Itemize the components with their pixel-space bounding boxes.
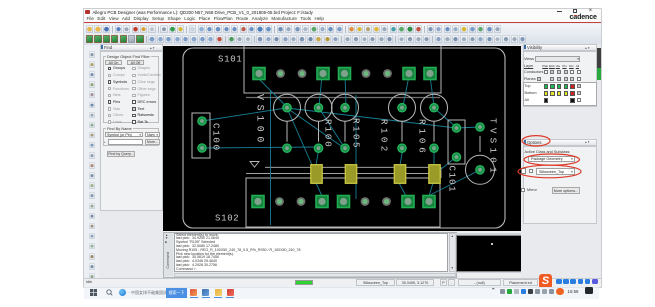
selected pad (yellow) 4 bbox=[429, 165, 440, 184]
svg-text:VS100: VS100 bbox=[254, 94, 265, 147]
svg-text:C100: C100 bbox=[211, 123, 222, 152]
svg-text:C101: C101 bbox=[447, 166, 458, 193]
C100 pin 2 bbox=[198, 144, 206, 152]
S102 second silk line bbox=[246, 173, 441, 175]
R106 pin 1 bbox=[430, 104, 438, 112]
taskbar bbox=[84, 287, 599, 300]
TVS101 pin 1 bbox=[452, 124, 460, 132]
svg-text:R106: R106 bbox=[417, 119, 428, 157]
toolbar row 2 icons bbox=[86, 35, 93, 43]
top layer row bbox=[544, 84, 548, 88]
right scrollbar bbox=[597, 48, 601, 80]
TVS101 pin 2 bbox=[452, 153, 460, 161]
TVS101 silk line bbox=[479, 136, 481, 152]
TVS101 pin 3 bbox=[476, 123, 484, 131]
S102 pin 1 bbox=[252, 196, 264, 208]
R100 pin 1 bbox=[314, 104, 322, 112]
toolbar background bbox=[84, 24, 601, 45]
R102 pin 2 bbox=[398, 144, 406, 152]
cadence logo bbox=[570, 14, 597, 21]
svg-text:R100: R100 bbox=[323, 119, 334, 149]
ratsnest wires bbox=[259, 79, 287, 107]
S102 pin 6 bbox=[361, 197, 370, 206]
left vertical toolbar bbox=[84, 45, 99, 278]
selected pad (yellow) 3 bbox=[394, 165, 405, 184]
pin-1 triangle marker bbox=[250, 162, 259, 168]
S101 pin 8 bbox=[403, 68, 415, 80]
S102 pin 5 bbox=[338, 196, 350, 208]
S102 upper silk line bbox=[265, 166, 441, 168]
C100 pin 1 bbox=[198, 117, 206, 125]
find panel bg bbox=[99, 44, 163, 278]
S102 pin 2 bbox=[275, 197, 284, 206]
S101 pin 7 bbox=[383, 69, 392, 78]
R100 body circle bbox=[305, 94, 332, 121]
find filter checkbox rows bbox=[108, 67, 112, 71]
connector S102 body bbox=[246, 178, 440, 227]
R106 silk line bbox=[433, 121, 435, 142]
R100 pin 2 bbox=[314, 144, 322, 152]
windows start button bbox=[90, 289, 97, 296]
taskbar app icons bbox=[190, 289, 197, 296]
S101 pin 1 bbox=[253, 68, 265, 80]
app window frame bbox=[84, 9, 601, 287]
TVS101 body bbox=[448, 120, 465, 164]
S101 pin 4 bbox=[317, 68, 329, 80]
S101 pin 3 bbox=[298, 69, 307, 78]
S102 pin 3 bbox=[297, 197, 306, 206]
svg-text:TVS101: TVS101 bbox=[488, 118, 499, 177]
R102 body circle bbox=[389, 94, 416, 121]
search icon bbox=[106, 289, 113, 296]
red separator bbox=[84, 22, 601, 24]
options panel bbox=[523, 139, 597, 146]
right panel bg bbox=[521, 44, 601, 278]
tray chat icon bbox=[585, 287, 593, 294]
R105 silk line bbox=[344, 121, 346, 142]
S102 pin 4 bbox=[316, 196, 328, 208]
all layer row bbox=[544, 98, 548, 102]
S102 pin 7 bbox=[382, 197, 391, 206]
R106 pin 2 bbox=[430, 144, 438, 152]
svg-text:S102: S102 bbox=[215, 214, 239, 224]
svg-text:R105: R105 bbox=[351, 118, 362, 150]
capacitor C100 body bbox=[192, 113, 210, 158]
floating snip tool bbox=[539, 274, 552, 289]
left toolbar icons bbox=[89, 51, 96, 58]
title bar bbox=[84, 9, 601, 15]
R102 silk line bbox=[401, 121, 403, 142]
R100 silk line bbox=[318, 121, 320, 142]
conductors row checkboxes bbox=[544, 70, 548, 74]
snip tool icons bbox=[556, 279, 562, 285]
S101 pin 2 bbox=[276, 69, 285, 78]
VS100 silk line bbox=[286, 121, 288, 142]
capacitor C101 body circle bbox=[466, 155, 495, 184]
console window bbox=[163, 232, 457, 278]
bottom layer row bbox=[544, 91, 548, 95]
svg-text:S101: S101 bbox=[218, 55, 242, 65]
VS100 pin 1 bbox=[283, 104, 291, 112]
search highlight button bbox=[166, 288, 187, 298]
S102 pin 8 bbox=[402, 196, 414, 208]
R105 body circle bbox=[332, 94, 359, 121]
R106 body circle bbox=[421, 94, 448, 121]
PCB canvas bbox=[163, 46, 521, 231]
visibility column headers bbox=[542, 64, 548, 68]
VS100 body circle bbox=[274, 94, 301, 121]
S101 pin 6 bbox=[362, 69, 371, 78]
system tray icons bbox=[500, 289, 505, 294]
VS100 pin 2 bbox=[283, 144, 291, 152]
edge icon bbox=[119, 289, 126, 296]
selected pad (yellow) 2 bbox=[345, 165, 356, 184]
visibility panel bbox=[523, 44, 597, 51]
R105 pin 1 bbox=[341, 104, 349, 112]
S101 pin 5 bbox=[339, 68, 351, 80]
selected pad (yellow) 1 bbox=[311, 165, 322, 184]
overview window bbox=[455, 233, 525, 273]
R102 pin 1 bbox=[398, 104, 406, 112]
S102 right silk stub bbox=[440, 167, 442, 178]
R105 pin 2 bbox=[341, 144, 349, 152]
C101 pin 1 bbox=[476, 166, 484, 174]
S102 pin 9 bbox=[423, 196, 435, 208]
toolbar row 1 icons bbox=[86, 25, 93, 33]
board outline bbox=[183, 48, 505, 228]
connector S101 body bbox=[244, 46, 441, 93]
svg-text:R102: R102 bbox=[379, 119, 390, 155]
menu bar bbox=[84, 15, 601, 22]
moving component ghost line bbox=[246, 97, 440, 99]
status bar bbox=[84, 278, 601, 288]
planes row checkboxes bbox=[537, 77, 541, 81]
S101 pin 9 bbox=[424, 68, 436, 80]
